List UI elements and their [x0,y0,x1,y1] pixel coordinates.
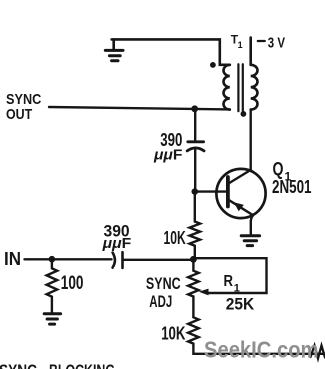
svg-text:IN: IN [4,249,21,269]
wire: top ground to transformer primary top [112,39,230,64]
wire SYNC OUT line [49,107,230,109]
transistor Q1 [216,169,265,235]
svg-text:ADJ: ADJ [149,292,172,311]
svg-text:BLOCKING: BLOCKING [49,361,115,369]
label -3V [258,40,265,42]
svg-text:OUT: OUT [6,106,32,123]
svg-text:1: 1 [234,283,240,295]
polarity dot primary [210,62,216,68]
junction node pot top [190,256,197,263]
capacitor 390uuF (series) [113,253,115,268]
wire IN line left [25,258,112,260]
svg-text:SYNC: SYNC [146,274,181,293]
resistor 10K lower [188,317,325,354]
ground below 100 [44,314,60,324]
svg-text:R: R [224,273,234,290]
ground below Q1 emitter [241,236,259,246]
wire: node to Q1 base [195,190,227,192]
junction node 100-ohm [49,256,56,263]
junction node base [192,188,199,195]
svg-text:μμF: μμF [102,235,132,252]
svg-text:Q: Q [273,159,284,179]
capacitor 390uuF plates [188,140,204,143]
svg-text:SeekIC.com: SeekIC.com [204,337,319,363]
capacitor 390uuF (shunt) lead top [194,109,196,141]
svg-text:10K: 10K [161,323,185,343]
wire IN line right of cap [123,259,194,261]
resistor 100 [47,259,58,313]
svg-text:3 V: 3 V [268,35,285,52]
junction node sync-out / primary bottom [191,105,198,112]
transformer T1 secondary winding [251,65,258,110]
svg-text:1: 1 [238,40,243,50]
ground top-left [105,39,123,60]
resistor 10K upper [190,192,201,260]
wire: secondary bottom down to Q1 collector [249,110,251,170]
wire: -3V stub to secondary top [249,38,252,65]
potentiometer R1 25K [188,259,199,317]
wire: node right and down to wiper line [193,258,266,293]
svg-text:2N501: 2N501 [272,177,312,197]
capacitor 390uuF lead bottom [194,149,196,192]
scribble at right edge of bottom wire [311,346,325,359]
polarity dot secondary [241,111,247,117]
transformer core [238,64,242,111]
svg-text:25K: 25K [226,295,255,314]
svg-text:10K: 10K [164,228,186,248]
wiper arrowhead [199,289,209,296]
svg-text:SYNC: SYNC [0,361,37,369]
transformer T1 primary winding [224,65,230,110]
svg-text:100: 100 [61,273,84,294]
svg-text:μμF: μμF [153,147,182,164]
